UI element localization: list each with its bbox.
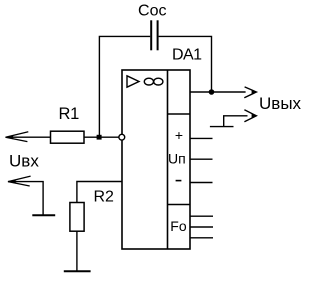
svg-text:Uвх: Uвх bbox=[9, 152, 39, 171]
svg-text:DA1: DA1 bbox=[172, 47, 202, 64]
svg-text:Uп: Uп bbox=[168, 151, 186, 167]
svg-text:Fo: Fo bbox=[170, 218, 187, 234]
svg-text:Uвых: Uвых bbox=[259, 94, 302, 113]
svg-text:+: + bbox=[175, 127, 183, 143]
svg-text:R2: R2 bbox=[94, 189, 115, 206]
svg-text:Cос: Cос bbox=[138, 2, 166, 19]
svg-text:R1: R1 bbox=[59, 105, 80, 123]
